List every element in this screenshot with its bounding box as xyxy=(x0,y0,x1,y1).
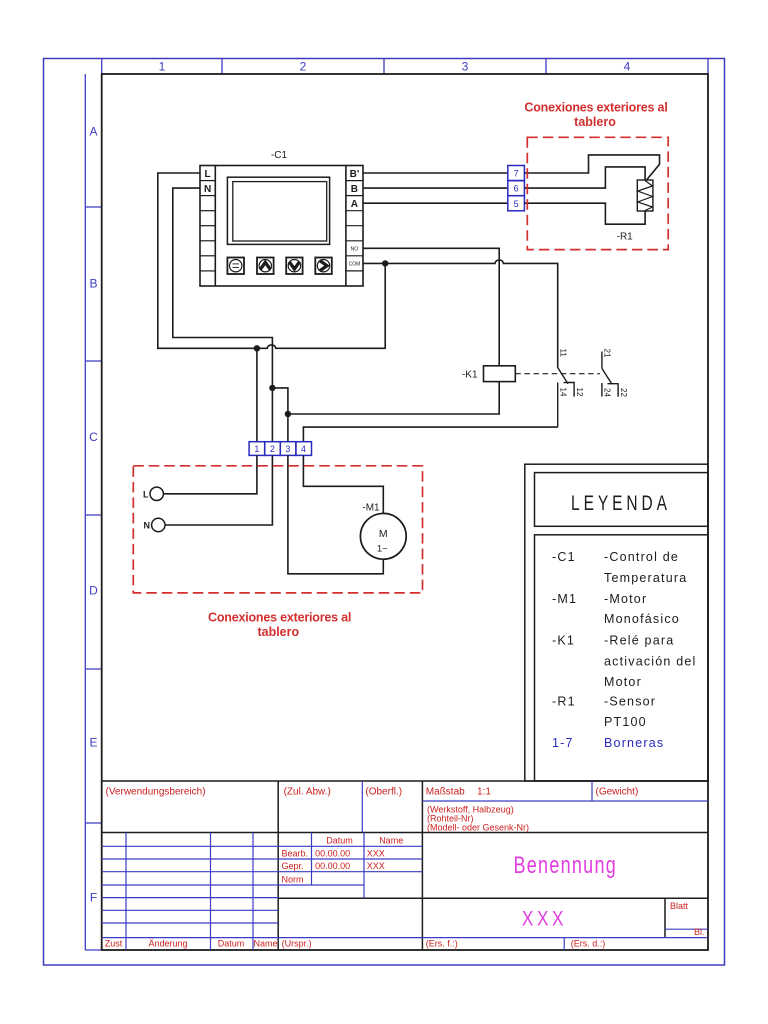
svg-text:B': B' xyxy=(350,169,360,180)
svg-text:21: 21 xyxy=(603,349,612,358)
K1 contact 11-12-14 changeover xyxy=(558,368,574,428)
svg-text:tablero: tablero xyxy=(257,625,299,639)
borne 7 xyxy=(508,166,525,181)
svg-text:Name: Name xyxy=(379,836,403,846)
svg-text:M: M xyxy=(379,528,388,540)
temperature controller U=C1 body xyxy=(200,166,363,287)
svg-text:Maßstab: Maßstab xyxy=(426,787,465,798)
svg-text:(Ers. f.:): (Ers. f.:) xyxy=(426,938,458,948)
mains L circle xyxy=(150,487,163,500)
svg-text:14: 14 xyxy=(559,388,568,397)
svg-text:A: A xyxy=(351,199,358,210)
junction dot COM riser xyxy=(382,260,388,266)
svg-text:5: 5 xyxy=(514,199,519,209)
svg-text:(Ers. d.:): (Ers. d.:) xyxy=(571,938,606,948)
wire borne 6 to R1 top xyxy=(524,167,645,188)
svg-text:00.00.00: 00.00.00 xyxy=(315,848,350,858)
svg-text:12: 12 xyxy=(575,388,584,397)
bottom row labels xyxy=(105,938,606,948)
svg-text:11: 11 xyxy=(559,349,568,358)
svg-text:E: E xyxy=(89,736,97,750)
svg-text:XXX: XXX xyxy=(522,907,567,931)
C1 display inner screen xyxy=(233,182,327,241)
svg-text:Gepr.: Gepr. xyxy=(282,861,304,871)
wire A to borne 5 xyxy=(363,202,508,204)
svg-text:B: B xyxy=(351,184,358,195)
drawing name (Benennung) xyxy=(514,852,618,878)
wire L from C1 down-left loop to junction and COM riser xyxy=(158,173,385,348)
svg-text:Norm: Norm xyxy=(282,875,304,885)
sheet outer blue border xyxy=(44,59,725,966)
red dashed boundary box bottom-left xyxy=(133,466,422,593)
borne 5 xyxy=(508,196,525,211)
svg-text:3: 3 xyxy=(462,60,469,74)
svg-text:1: 1 xyxy=(254,444,259,454)
wire NO output to K1 coil xyxy=(363,248,499,365)
relay coil K1 xyxy=(484,366,516,382)
legend items box xyxy=(535,535,709,781)
legend outer box xyxy=(525,464,708,781)
svg-text:Bl.: Bl. xyxy=(694,927,705,937)
K1 contact 21-22-24 spare changeover xyxy=(602,352,618,397)
svg-text:(Verwendungsbereich): (Verwendungsbereich) xyxy=(106,787,206,798)
svg-text:PT100: PT100 xyxy=(604,715,647,729)
svg-text:Änderung: Änderung xyxy=(148,938,187,948)
svg-text:Zust: Zust xyxy=(105,938,123,948)
wire coil bottom return xyxy=(288,382,499,414)
C1 button down xyxy=(286,258,302,275)
svg-text:Name: Name xyxy=(253,938,277,948)
svg-text:6: 6 xyxy=(514,184,519,194)
svg-text:COM: COM xyxy=(349,261,361,267)
svg-text:4: 4 xyxy=(624,60,631,74)
svg-text:Conexiones exteriores al: Conexiones exteriores al xyxy=(524,100,667,114)
svg-text:N: N xyxy=(204,184,211,195)
svg-text:1~: 1~ xyxy=(377,544,388,555)
svg-text:22: 22 xyxy=(619,388,628,397)
svg-text:(Modell- oder Gesenk-Nr): (Modell- oder Gesenk-Nr) xyxy=(427,823,529,833)
C1 button right xyxy=(315,258,332,275)
svg-text:Conexiones exteriores al: Conexiones exteriores al xyxy=(208,611,351,625)
svg-text:(Oberfl.): (Oberfl.) xyxy=(365,787,402,798)
svg-text:-C1: -C1 xyxy=(552,550,576,564)
svg-text:-Relé para: -Relé para xyxy=(604,634,674,648)
svg-text:L: L xyxy=(143,489,149,499)
wire terminal 2 to mains N xyxy=(165,455,272,525)
borne 6 xyxy=(508,181,525,196)
svg-text:-M1: -M1 xyxy=(362,503,380,514)
wire branch N to coil return xyxy=(272,388,288,442)
sensor R1 PT100 body xyxy=(637,180,653,211)
svg-text:-K1: -K1 xyxy=(552,634,575,648)
svg-text:L: L xyxy=(205,169,211,180)
svg-text:4: 4 xyxy=(301,444,306,454)
svg-text:00.00.00: 00.00.00 xyxy=(315,861,350,871)
C1 left terminal cell dividers xyxy=(200,181,215,271)
svg-text:N: N xyxy=(144,521,151,531)
svg-text:-R1: -R1 xyxy=(552,695,576,709)
svg-text:1: 1 xyxy=(159,60,166,74)
svg-text:LEYENDA: LEYENDA xyxy=(571,490,671,514)
junction dot N branch xyxy=(269,385,275,391)
svg-text:Monofásico: Monofásico xyxy=(604,612,680,626)
svg-text:24: 24 xyxy=(603,388,612,397)
R1 zigzag element xyxy=(638,181,653,211)
motor M1 circle xyxy=(360,513,406,559)
C1 button auto/man xyxy=(227,258,244,275)
svg-text:2: 2 xyxy=(300,60,307,74)
svg-text:XXX: XXX xyxy=(367,861,385,871)
svg-text:1-7: 1-7 xyxy=(552,736,574,750)
title block material labels xyxy=(427,805,529,833)
svg-text:Temperatura: Temperatura xyxy=(604,571,687,585)
row letter strip xyxy=(85,74,101,950)
column header strip dividers xyxy=(102,59,708,75)
svg-text:Bearb.: Bearb. xyxy=(282,848,309,858)
junction dot terminal1 branch xyxy=(254,345,260,351)
legend items text xyxy=(552,550,697,729)
svg-text:Datum: Datum xyxy=(218,938,245,948)
wire contact 14 to terminal 4 xyxy=(303,427,557,442)
wire B' to borne 7 xyxy=(363,172,508,174)
wire COM output to contact 11 xyxy=(363,260,558,368)
svg-text:A: A xyxy=(89,125,97,139)
svg-text:NO: NO xyxy=(351,246,359,252)
svg-text:2: 2 xyxy=(270,444,275,454)
svg-text:1:1: 1:1 xyxy=(477,787,491,798)
red dashed boundary box top-right xyxy=(527,137,668,249)
svg-text:(Gewicht): (Gewicht) xyxy=(596,787,639,798)
svg-text:Blatt: Blatt xyxy=(670,901,689,911)
wire terminal 3 to motor bottom xyxy=(288,455,383,573)
K1 mechanical link dashed xyxy=(515,373,600,375)
svg-text:D: D xyxy=(89,584,98,598)
title block black lines xyxy=(102,781,708,950)
svg-text:3: 3 xyxy=(285,444,290,454)
svg-text:(Zul. Abw.): (Zul. Abw.) xyxy=(284,787,331,798)
svg-text:(Urspr.): (Urspr.) xyxy=(282,938,312,948)
svg-text:XXX: XXX xyxy=(367,848,385,858)
wire terminal 4 to motor top xyxy=(303,455,383,513)
mains N circle xyxy=(152,518,165,531)
C1 display outer bezel xyxy=(227,177,329,244)
svg-text:F: F xyxy=(90,891,97,905)
svg-text:-Control de: -Control de xyxy=(604,550,679,564)
wire borne 5 to R1 bottom xyxy=(524,203,645,224)
svg-text:B: B xyxy=(89,277,97,291)
drawing number XXX xyxy=(522,907,567,931)
svg-text:-Motor: -Motor xyxy=(604,592,647,606)
terminal strip bornes 1-4 xyxy=(249,442,265,456)
svg-text:Motor: Motor xyxy=(604,675,642,689)
svg-text:7: 7 xyxy=(514,169,519,179)
svg-text:-Sensor: -Sensor xyxy=(604,695,656,709)
legend title box xyxy=(535,473,709,527)
wire N from C1 down to terminal 2 xyxy=(173,188,273,442)
svg-text:Benennung: Benennung xyxy=(514,852,618,878)
svg-text:C: C xyxy=(89,430,98,444)
approval table labels xyxy=(282,836,404,885)
legend title text xyxy=(571,490,671,514)
svg-text:-M1: -M1 xyxy=(552,592,577,606)
svg-text:activación del: activación del xyxy=(604,655,697,669)
svg-text:tablero: tablero xyxy=(574,115,616,129)
wire terminal 1 to mains L xyxy=(163,455,257,493)
C1 right terminal cell dividers xyxy=(346,181,363,271)
svg-text:-C1: -C1 xyxy=(271,150,288,161)
junction dot coil return xyxy=(285,411,291,417)
svg-text:-R1: -R1 xyxy=(617,232,634,243)
wire B to borne 6 xyxy=(363,187,508,189)
title block blue lines xyxy=(102,781,708,950)
svg-text:-K1: -K1 xyxy=(462,370,478,381)
wire borne 7 to R1 top (3-wire) xyxy=(524,155,659,180)
wire branch L to terminal 1 xyxy=(256,348,258,441)
C1 button up xyxy=(257,258,274,275)
title block red labels row1 xyxy=(106,787,639,798)
inner black drawing frame xyxy=(102,74,708,950)
svg-text:Borneras: Borneras xyxy=(604,736,664,750)
svg-text:Datum: Datum xyxy=(326,836,353,846)
